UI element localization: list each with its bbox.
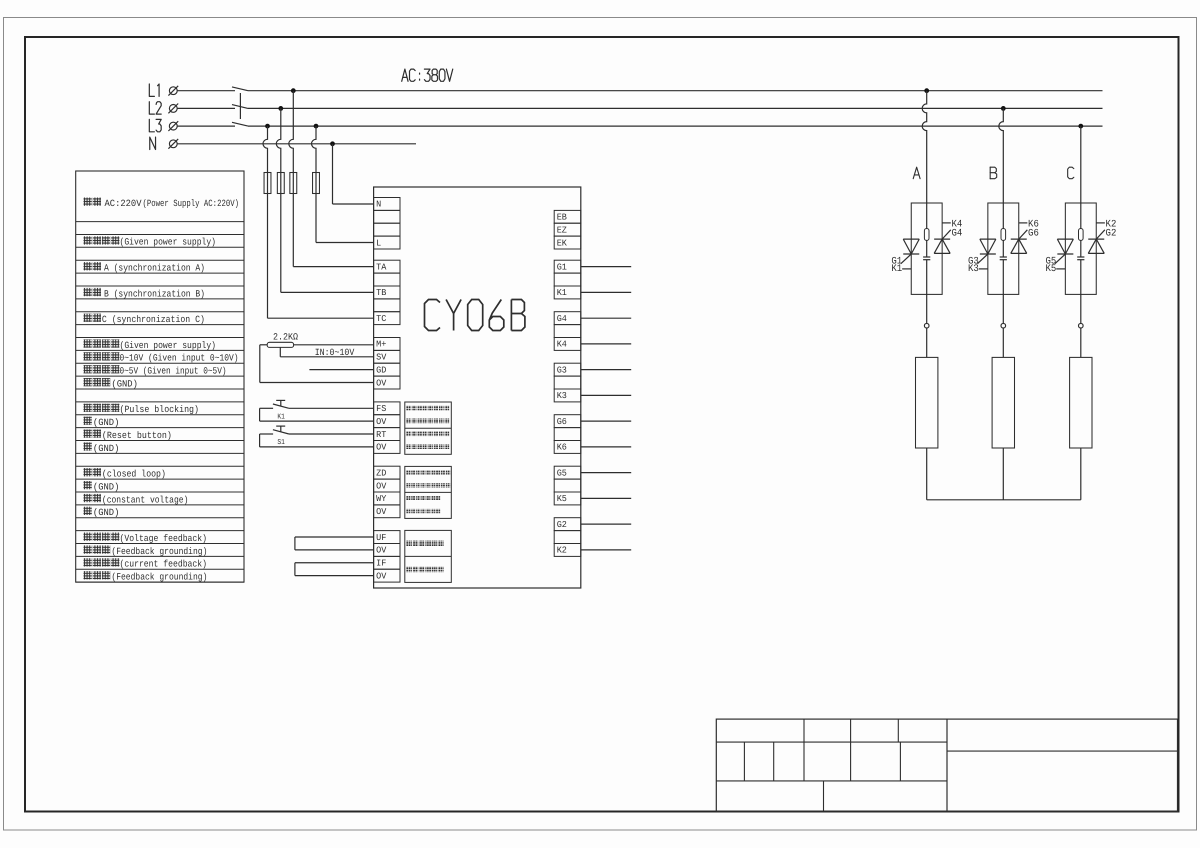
wire pin K3 stub [581, 394, 631, 396]
legend row sync C [84, 314, 205, 325]
pin group UF/OV/IF/OV [374, 531, 400, 583]
label CY06B [425, 300, 525, 331]
wire pin K1 stub [581, 291, 631, 293]
legend row power supply [84, 198, 240, 209]
wire pin G4 stub [581, 317, 631, 319]
svg-text:G2: G2 [557, 520, 567, 530]
svg-text:OV: OV [376, 481, 387, 491]
legend row given power supply [84, 236, 217, 247]
svg-text:OV: OV [376, 546, 387, 556]
svg-text:FS: FS [376, 404, 386, 414]
label phase B [990, 167, 997, 179]
label IN:0~10V [315, 347, 355, 358]
node terminal module B [1001, 294, 1006, 357]
svg-text:(Voltage feedback): (Voltage feedback) [120, 533, 208, 544]
wire pin G2 stub [581, 523, 631, 525]
wire load B to bus [1002, 448, 1004, 500]
wire to pin L [316, 242, 374, 244]
node L3 tap 2 [314, 124, 319, 129]
IC U1 CY06B body [374, 187, 581, 588]
svg-text:ZD: ZD [376, 468, 386, 478]
svg-text:EZ: EZ [557, 225, 568, 235]
svg-text:0~5V (Given input 0~5V): 0~5V (Given input 0~5V) [120, 366, 227, 377]
svg-text:AC:220V: AC:220V [105, 198, 142, 209]
load resistor phase C [1070, 357, 1092, 448]
capacitor snubber module B [1000, 240, 1007, 294]
svg-text:(constant voltage): (constant voltage) [102, 494, 188, 505]
node N tap [330, 141, 335, 146]
switch K1 [260, 400, 374, 421]
node L3 tap 1 [265, 124, 270, 129]
legend row constant voltage [84, 494, 189, 505]
node B phase tap [1001, 106, 1006, 111]
svg-text:UF: UF [376, 533, 386, 543]
svg-text:OV: OV [376, 417, 387, 427]
svg-text:TA: TA [376, 262, 387, 272]
label 2.2K ohm [273, 331, 298, 342]
svg-text:A (synchronization A): A (synchronization A) [104, 263, 205, 274]
breaker QF pole L2 blade [232, 105, 248, 109]
wire RP1 left to OV [260, 345, 374, 383]
svg-text:(Given power supply): (Given power supply) [120, 237, 217, 248]
wire pin G5 stub [581, 472, 631, 474]
load resistor phase B [992, 357, 1014, 448]
pin group G5/K5 [554, 466, 581, 505]
pin group TA/TB/TC [374, 260, 400, 324]
svg-text:S1: S1 [277, 438, 285, 447]
svg-text:IF: IF [376, 559, 386, 569]
fuse FU4 [313, 173, 320, 194]
pin group ZD/OV/WY/OV [374, 466, 400, 518]
wire drop N to pin N [332, 144, 334, 204]
node N terminal [168, 139, 178, 149]
wire L1 bus [248, 90, 1103, 92]
svg-text:G6: G6 [1028, 229, 1039, 240]
svg-text:N: N [376, 200, 381, 210]
fuse FU2 [277, 173, 284, 194]
legend row gnd 4 [84, 507, 120, 518]
svg-text:(Feedback grounding): (Feedback grounding) [111, 572, 207, 583]
wire UF feedback loop [295, 537, 374, 550]
wire to pin TB [281, 291, 374, 293]
pin group G3/K3 [554, 363, 581, 402]
resistor snubber module A [924, 203, 929, 240]
legend table frame [76, 171, 244, 582]
node L1 terminal [168, 86, 178, 96]
thyristor module B body [988, 203, 1019, 294]
svg-text:SV: SV [376, 353, 387, 363]
svg-text:0~10V (Given input 0~10V): 0~10V (Given input 0~10V) [120, 353, 239, 364]
fuse FU3 [290, 173, 297, 194]
svg-text:(GND): (GND) [93, 417, 120, 428]
svg-text:WY: WY [376, 494, 387, 504]
breaker QF pole L1 blade [232, 87, 248, 91]
svg-text:(GND): (GND) [93, 443, 120, 454]
note box DC voltage/current feedback [405, 530, 452, 582]
legend row given gnd [84, 378, 138, 389]
wire L1 left segment [177, 90, 235, 92]
pin group G6/K6 [554, 415, 581, 454]
wire RP1 to M+ [294, 344, 374, 346]
svg-text:(Power Supply AC:220V): (Power Supply AC:220V) [143, 198, 240, 209]
wire L2 bus [248, 107, 1103, 109]
load resistor phase A [916, 357, 938, 448]
svg-text:OV: OV [376, 443, 387, 453]
svg-text:K3: K3 [557, 391, 567, 401]
node L2 tap [278, 106, 283, 111]
svg-text:K3: K3 [968, 264, 979, 275]
svg-text:TB: TB [376, 288, 387, 298]
svg-text:G5: G5 [557, 468, 567, 478]
legend row closed loop [84, 468, 166, 479]
breaker QF linkage [239, 93, 241, 119]
wire L3 bus [248, 125, 1103, 127]
svg-text:OV: OV [376, 571, 387, 581]
svg-text:(GND): (GND) [93, 481, 120, 492]
wire drop L3 to TC [263, 126, 267, 318]
svg-text:(Given power supply): (Given power supply) [120, 340, 217, 351]
svg-text:G2: G2 [1106, 229, 1117, 240]
node C phase tap [1078, 124, 1083, 129]
svg-text:IN:0~10V: IN:0~10V [315, 347, 355, 358]
legend row gnd 3 [84, 481, 120, 492]
pin group G2/K2 [554, 518, 581, 557]
label phase A [913, 167, 920, 179]
svg-text:(Pulse blocking): (Pulse blocking) [120, 404, 200, 415]
pin group N/L [374, 198, 400, 250]
capacitor snubber module A [923, 240, 930, 294]
wire L3 left segment [177, 125, 235, 127]
wire pin K6 stub [581, 446, 631, 448]
wire phase A drop [922, 91, 927, 203]
svg-text:(Reset button): (Reset button) [102, 430, 172, 441]
svg-text:EK: EK [557, 238, 568, 248]
wire GD stub [309, 369, 373, 371]
wire drop L2 to TB [276, 108, 280, 292]
wire pin G1 stub [581, 266, 631, 268]
resistor RP1 2.2K body [267, 342, 293, 347]
wire RP1 wiper to SV [280, 347, 373, 356]
node L2 terminal [168, 104, 178, 114]
svg-text:(current feedback): (current feedback) [120, 559, 208, 570]
wire L2 left segment [177, 107, 235, 109]
pin group G4/K4 [554, 312, 581, 351]
pin group G1/K1 [554, 260, 581, 299]
wire K1 return to OV [260, 408, 374, 421]
label N [150, 137, 156, 149]
svg-text:2.2KΩ: 2.2KΩ [273, 331, 298, 342]
svg-text:EB: EB [557, 213, 568, 223]
legend row current feedback [84, 558, 208, 569]
svg-text:L: L [376, 238, 381, 248]
wire S1 return to OV [260, 434, 374, 447]
svg-text:OV: OV [376, 507, 387, 517]
legend row voltage feedback [84, 533, 208, 544]
svg-text:GD: GD [376, 365, 386, 375]
wire pin K2 stub [581, 549, 631, 551]
legend row given input 0-5V [84, 365, 227, 376]
svg-text:B (synchronization B): B (synchronization B) [104, 288, 205, 299]
legend row reset button [84, 430, 172, 441]
svg-text:(GND): (GND) [93, 507, 120, 518]
legend row given power supply 2 [84, 339, 217, 350]
svg-text:(Feedback grounding): (Feedback grounding) [111, 546, 207, 557]
legend row sync B [84, 288, 206, 299]
pin group FS/OV/RT/OV [374, 402, 400, 454]
wire phase B drop [999, 108, 1004, 203]
note box pulse blocking/reset [405, 402, 452, 454]
legend row sync A [84, 262, 206, 273]
thyristor G1/K1 (left, module A) [891, 239, 919, 275]
thyristor module A body [911, 203, 942, 294]
svg-text:G3: G3 [557, 365, 567, 375]
svg-text:(GND): (GND) [111, 378, 137, 389]
svg-text:K6: K6 [557, 443, 567, 453]
svg-text:K5: K5 [1046, 264, 1057, 275]
legend row gnd 1 [84, 417, 120, 428]
label L3 [149, 119, 161, 131]
resistor snubber module C [1079, 203, 1084, 240]
svg-text:M+: M+ [376, 340, 386, 350]
wire drop L1 to TA [289, 91, 293, 267]
thyristor K6/G6 (right, module B) [1011, 220, 1039, 254]
node terminal module C [1079, 294, 1084, 357]
legend row gnd 2 [84, 442, 120, 453]
svg-text:K4: K4 [557, 340, 567, 350]
label L2 [149, 102, 161, 114]
wire to pin N [333, 203, 374, 205]
svg-text:G4: G4 [951, 229, 962, 240]
wire pin K5 stub [581, 497, 631, 499]
svg-text:TC: TC [376, 314, 387, 324]
wire pin G6 stub [581, 420, 631, 422]
capacitor snubber module C [1077, 240, 1084, 294]
wire phase C drop [1080, 126, 1082, 203]
wire IF feedback loop [295, 563, 374, 576]
svg-text:OV: OV [376, 378, 387, 388]
wire load A to bus [926, 448, 928, 500]
wire to pin TA [293, 266, 373, 268]
svg-text:K1: K1 [891, 264, 902, 275]
svg-text:C (synchronization C): C (synchronization C) [102, 314, 205, 325]
thyristor K4/G4 (right, module A) [934, 220, 962, 254]
resistor snubber module B [1001, 203, 1006, 240]
legend row given input 0-10V [84, 352, 239, 363]
wire pin G3 stub [581, 369, 631, 371]
svg-text:(closed loop): (closed loop) [102, 469, 166, 480]
pin group EB/EZ/EK [554, 210, 581, 249]
legend row feedback grounding 2 [84, 571, 208, 582]
node L3 terminal [168, 121, 178, 131]
breaker QF pole L3 blade [232, 122, 248, 126]
svg-text:K5: K5 [557, 494, 567, 504]
svg-text:K2: K2 [557, 546, 567, 556]
node terminal module A [924, 294, 929, 357]
node A phase tap [924, 88, 929, 93]
svg-text:K1: K1 [557, 288, 567, 298]
svg-text:RT: RT [376, 430, 387, 440]
wire bottom bus [927, 499, 1081, 501]
pin group M+/SV/GD/OV [374, 338, 400, 390]
wire N bus [177, 143, 416, 145]
svg-text:G1: G1 [557, 262, 567, 272]
thyristor module C body [1065, 203, 1096, 294]
thyristor G3/K3 (left, module B) [968, 239, 996, 275]
svg-text:G6: G6 [557, 417, 567, 427]
svg-text:G4: G4 [557, 314, 567, 324]
legend row feedback grounding 1 [84, 545, 208, 556]
wire to pin TC [268, 317, 374, 319]
note box auto/manual constant-voltage [405, 466, 452, 518]
fuse FU1 [264, 173, 271, 194]
svg-text:K1: K1 [277, 414, 285, 422]
label AC:380V [402, 69, 453, 81]
thyristor G5/K5 (left, module C) [1046, 239, 1074, 275]
wire pin K4 stub [581, 343, 631, 345]
wire load C to bus [1080, 448, 1082, 500]
switch S1 [260, 426, 374, 447]
thyristor K2/G2 (right, module C) [1088, 220, 1116, 254]
wire drop L3 to L [312, 126, 316, 242]
label phase C [1068, 167, 1074, 179]
node L1 tap [291, 88, 296, 93]
title block [716, 719, 1177, 811]
label L1 [149, 84, 159, 96]
legend row pulse blocking [84, 404, 200, 415]
